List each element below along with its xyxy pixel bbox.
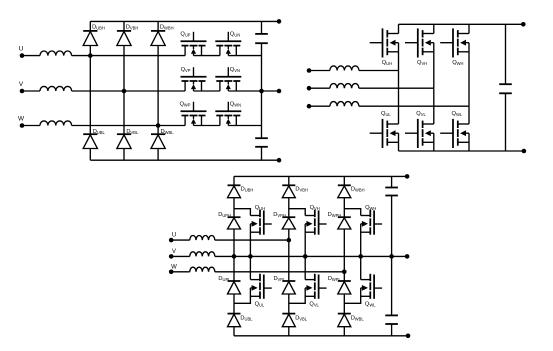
wire D_VPL to D_VBL (node B): [288, 294, 290, 314]
wire Q_WL source to node B: [344, 288, 360, 303]
wire V terminal to inductor (bottom): [171, 255, 190, 257]
output terminal mid (top-left): [277, 89, 282, 94]
svg-text:DUPL: DUPL: [218, 276, 231, 282]
svg-text:QWL: QWL: [365, 301, 376, 307]
svg-text:DUBL: DUBL: [240, 315, 253, 321]
diode D_WBL: [151, 133, 165, 135]
wire D_UPH to D_UPL (phase segment): [233, 229, 235, 281]
wire Q_UH source to midpoint line: [249, 224, 251, 257]
wire node A to Q_VH drain: [289, 209, 305, 216]
wire Q_UL source to bottom rail: [398, 133, 400, 151]
svg-text:QWP: QWP: [179, 101, 190, 107]
inductor L-V (bottom): [190, 252, 215, 257]
transistor Q_WH: [361, 210, 382, 235]
wire phase column down to diode D_VBL: [123, 91, 125, 134]
diode D_VBH: [117, 30, 131, 32]
output terminal + (top-left): [277, 19, 282, 24]
wire diode D_WBH to phase column: [157, 46, 159, 126]
wire phase column down to diode D_UBL: [89, 56, 91, 135]
wire rail to diode D_WBH: [157, 21, 159, 31]
wire terminal to inductor (phase 3): [309, 105, 330, 107]
output terminal mid (bottom circuit): [405, 254, 410, 259]
wire inductor to leg U: [359, 70, 399, 72]
input terminal 1 (top-right): [307, 68, 312, 73]
wire midpoint line to Q_WL drain: [360, 256, 362, 279]
top DC rail (bottom circuit): [234, 175, 407, 177]
svg-text:DUPH: DUPH: [218, 212, 231, 218]
wire D_VBL to bottom rail: [288, 327, 290, 336]
wire inductor to Q_VP drain tap: [72, 90, 186, 92]
svg-text:QUL: QUL: [381, 111, 391, 117]
diode D_UBL: [83, 133, 97, 135]
svg-text:U: U: [19, 46, 24, 53]
svg-text:DWBL: DWBL: [161, 129, 175, 135]
diode D_UPH: [228, 216, 241, 218]
wire top rail to diode D_VBH: [288, 176, 290, 185]
svg-text:V: V: [172, 249, 176, 255]
wire Q_VH source to phase node: [433, 43, 435, 88]
svg-text:QWL: QWL: [452, 111, 463, 117]
svg-text:QWN: QWN: [230, 101, 241, 107]
capacitor C-bot (bottom circuit): [385, 314, 398, 316]
wire midpoint to output terminal: [262, 90, 280, 92]
wire D_WPL to D_WBL (node B): [343, 294, 345, 314]
svg-text:DVBL: DVBL: [295, 315, 308, 321]
diode D_VPL: [282, 280, 295, 282]
wire inductor to Q_WP drain tap: [72, 125, 186, 127]
inductor phase 2 (top-right): [330, 84, 359, 89]
inductor L-W (bottom): [190, 267, 215, 272]
node capacitor midpoint (bottom circuit): [389, 254, 394, 259]
transistor Q_VH: [305, 210, 326, 235]
top DC rail (top-right): [399, 23, 524, 25]
output terminal + (top-right): [521, 22, 526, 27]
input terminal W (bottom): [169, 270, 174, 275]
wire top rail to Q_VH drain: [433, 24, 435, 33]
svg-text:DVBH: DVBH: [126, 25, 139, 31]
transistor Q_WL: [440, 119, 469, 148]
svg-text:DUBH: DUBH: [241, 187, 254, 193]
svg-text:QVP: QVP: [181, 67, 191, 73]
wire phase node to Q_VL drain: [433, 88, 435, 124]
svg-text:QUH: QUH: [382, 60, 392, 66]
transistor Q_WH: [440, 28, 469, 57]
wire D_WBH to D_WPH (node A): [343, 198, 345, 218]
node phase W column junction: [156, 123, 161, 128]
diode D_VPH: [282, 216, 295, 218]
inductor L-U (top-left): [40, 51, 72, 56]
wire D_UBH to D_UPH (node A): [233, 198, 235, 218]
transistor Q_VH: [405, 28, 434, 57]
wire D_UPL to D_UBL (node B): [233, 294, 235, 314]
output terminal + (bottom circuit): [405, 174, 410, 179]
diode D_WPH: [338, 216, 351, 218]
wire node A to Q_UH drain: [234, 209, 250, 216]
svg-text:DUBL: DUBL: [93, 129, 106, 135]
wire diode D_VBL to bottom rail: [123, 149, 125, 161]
transistor Q_UP: [181, 32, 207, 56]
input terminal V (top-left): [20, 89, 25, 94]
wire phase node to Q_WL drain: [468, 106, 470, 124]
wire D_WBL to bottom rail: [343, 327, 345, 336]
wire rail to diode D_UBH: [89, 21, 91, 31]
phase W line (bottom): [215, 271, 344, 273]
transistor Q_VL: [405, 119, 434, 148]
capacitor C (top-right): [499, 83, 512, 85]
wire capacitor C2 to bottom rail: [261, 147, 263, 160]
diode D_VBH: [282, 184, 295, 186]
svg-text:DWBH: DWBH: [351, 187, 365, 193]
input terminal V (bottom): [169, 254, 174, 259]
wire phase node to Q_UL drain: [398, 71, 400, 125]
wire C-top to midpoint line: [391, 196, 393, 257]
wire capacitor to bottom rail (top-right): [505, 93, 507, 151]
transistor Q_UL: [370, 119, 399, 148]
svg-text:QWH: QWH: [452, 60, 463, 66]
node DC midpoint (top-left): [259, 89, 264, 94]
diode D_VBL: [117, 133, 131, 135]
capacitor C-top (bottom circuit): [385, 187, 398, 189]
inductor L-W (top-left): [40, 121, 72, 126]
wire top rail to capacitor C-top (bottom circuit): [391, 176, 393, 187]
wire D_VBH to D_VPH (node A): [288, 198, 290, 218]
wire Q_WP source to Q_WN drain: [194, 125, 220, 127]
wire diode D_WBL to bottom rail: [157, 149, 159, 161]
output terminal - (top-left): [277, 158, 282, 163]
inductor phase 3 (top-right): [330, 102, 359, 107]
inductor L-U (bottom): [190, 236, 215, 241]
transistor Q_UH: [250, 210, 271, 235]
wire U terminal to inductor: [22, 55, 40, 57]
diode D_UBL: [228, 313, 241, 315]
transistor Q_WP: [181, 102, 207, 126]
wire top rail to Q_WH drain: [468, 24, 470, 33]
inductor L-V (top-left): [40, 86, 72, 91]
svg-text:DVBH: DVBH: [295, 187, 308, 193]
node Q_VH/Q_VL midpoint: [303, 254, 308, 259]
wire V terminal to inductor: [22, 90, 40, 92]
wire Q_VN source to DC bus: [228, 90, 261, 92]
wire diode D_UBH to phase column: [89, 46, 91, 56]
top DC rail (top-left): [90, 20, 279, 22]
diode D_WBL: [338, 313, 351, 315]
node phase V to stack 1: [232, 254, 237, 259]
input terminal U (top-left): [20, 53, 25, 58]
svg-text:QUN: QUN: [230, 31, 240, 37]
wire W terminal to inductor: [22, 125, 40, 127]
transistor Q_UL: [250, 274, 271, 299]
inductor phase 1 (top-right): [330, 66, 359, 71]
wire diode D_UBL to bottom rail: [89, 149, 91, 161]
svg-text:DUBH: DUBH: [92, 25, 105, 31]
svg-text:DVPH: DVPH: [273, 212, 286, 218]
wire Q_UN source to DC bus: [228, 55, 261, 57]
wire Q_WL source to bottom rail: [468, 133, 470, 151]
wire top rail to diode D_WBH: [343, 176, 345, 185]
wire Q_UH source to phase node: [398, 43, 400, 71]
wire rail to diode D_VBH: [123, 21, 125, 31]
node Q_UH/Q_UL midpoint: [248, 254, 253, 259]
diode D_UBH: [228, 184, 241, 186]
wire phase column down to diode D_WBL: [157, 126, 159, 135]
wire top rail to capacitor (top-right): [505, 24, 507, 84]
output terminal - (bottom circuit): [406, 334, 411, 339]
svg-text:W: W: [171, 264, 177, 270]
node Q_WH/Q_WL midpoint: [358, 254, 363, 259]
wire Q_WN source to DC bus: [228, 125, 261, 127]
svg-text:W: W: [18, 115, 25, 122]
node phase W to stack 3: [342, 270, 347, 275]
wire midpoint line to Q_UL drain: [249, 256, 251, 279]
DC bus vertical (top-left): [261, 43, 263, 138]
input terminal 3 (top-right): [307, 104, 312, 109]
phase V / midpoint line (bottom): [215, 255, 407, 257]
svg-text:DWPL: DWPL: [328, 276, 342, 282]
wire D_VPH to D_VPL (phase segment): [288, 229, 290, 281]
wire inductor to leg V: [359, 87, 434, 89]
svg-text:DWBH: DWBH: [160, 25, 174, 31]
svg-text:QVL: QVL: [416, 111, 426, 117]
bottom DC rail (bottom circuit): [234, 335, 408, 337]
wire top rail to diode D_UBH: [233, 176, 235, 185]
bottom DC rail (top-left): [90, 159, 279, 161]
diode D_VBL: [282, 313, 295, 315]
node phase V column junction: [122, 89, 127, 94]
input terminal W (top-left): [20, 123, 25, 128]
svg-text:QUP: QUP: [180, 31, 190, 37]
node phase U column junction: [88, 53, 93, 58]
svg-text:DVBL: DVBL: [126, 129, 139, 135]
transistor Q_VL: [305, 274, 326, 299]
wire Q_VL source to node B: [289, 288, 305, 303]
output terminal - (top-right): [522, 149, 527, 154]
svg-text:QUL: QUL: [255, 301, 265, 307]
phase U line (bottom): [215, 239, 289, 241]
wire inductor to Q_UP drain tap: [72, 55, 186, 57]
diode D_UBH: [83, 30, 97, 32]
transistor Q_VP: [181, 67, 207, 91]
wire Q_VP source to Q_VN drain: [194, 90, 220, 92]
wire Q_UL source to node B: [234, 288, 250, 303]
svg-text:DVPL: DVPL: [273, 276, 286, 282]
wire W terminal to inductor (bottom): [171, 271, 190, 273]
svg-text:V: V: [19, 81, 24, 88]
svg-text:U: U: [172, 233, 176, 239]
transistor Q_UH: [370, 28, 399, 57]
wire Q_VH source to midpoint line: [304, 224, 306, 257]
diode D_WPL: [338, 280, 351, 282]
diode D_WBH: [338, 184, 351, 186]
diode D_UPL: [228, 280, 241, 282]
transistor Q_UN: [215, 32, 241, 56]
wire terminal to inductor (phase 1): [309, 70, 330, 72]
wire midpoint line to Q_VL drain: [304, 256, 306, 279]
node phase U to stack 2: [287, 238, 292, 243]
wire Q_WH source to midpoint line: [360, 224, 362, 257]
input terminal U (bottom): [169, 238, 174, 243]
wire D_WPH to D_WPL (phase segment): [343, 229, 345, 281]
wire D_UBL to bottom rail: [233, 327, 235, 336]
wire Q_VL source to bottom rail: [433, 133, 435, 151]
wire node A to Q_WH drain: [344, 209, 360, 216]
wire Q_WH source to phase node: [468, 43, 470, 106]
svg-text:DWPH: DWPH: [328, 212, 342, 218]
svg-text:QVL: QVL: [309, 301, 319, 307]
svg-text:DWBL: DWBL: [351, 315, 365, 321]
wire inductor to leg W: [359, 105, 469, 107]
wire U terminal to inductor (bottom): [171, 239, 190, 241]
wire top rail to capacitor C1: [261, 21, 263, 34]
wire top rail to Q_UH drain: [398, 24, 400, 33]
input terminal 2 (top-right): [307, 86, 312, 91]
transistor Q_VN: [215, 67, 241, 91]
wire C-bot to bottom rail: [391, 324, 393, 336]
bottom DC rail (top-right): [399, 150, 524, 152]
capacitor C2 (top-left lower): [255, 137, 268, 139]
svg-text:QVN: QVN: [230, 67, 240, 73]
wire Q_UP source to Q_UN drain: [194, 55, 220, 57]
transistor Q_WN: [215, 102, 241, 126]
wire midpoint to capacitor C-bot: [391, 256, 393, 315]
transistor Q_WL: [361, 274, 382, 299]
capacitor C1 (top-left upper): [255, 33, 268, 35]
wire terminal to inductor (phase 2): [309, 87, 330, 89]
svg-text:QVH: QVH: [417, 60, 427, 66]
wire diode D_VBH to phase column: [123, 46, 125, 92]
diode D_WBH: [151, 30, 165, 32]
